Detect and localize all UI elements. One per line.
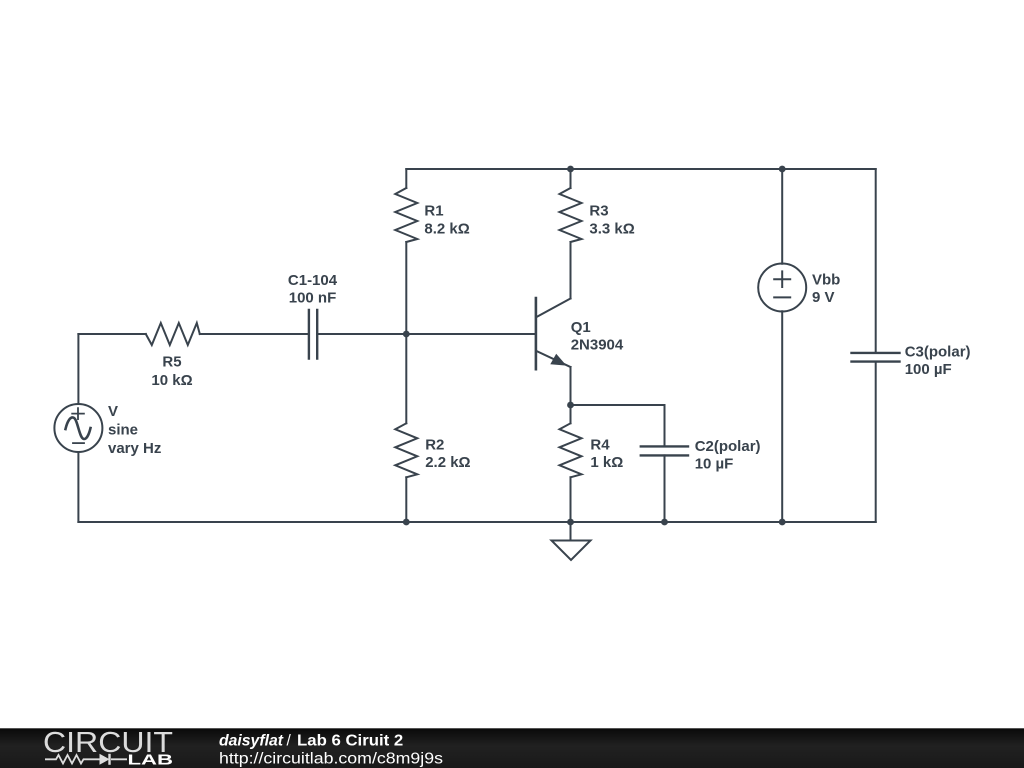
wire emitter node to C2 — [571, 405, 665, 446]
wire C1 to base node — [317, 333, 536, 335]
node R2 bottom junction — [403, 519, 410, 526]
wire R2 bottom stub — [405, 477, 407, 522]
node emitter junction — [567, 402, 574, 409]
svg-text:100 µF: 100 µF — [905, 361, 952, 378]
svg-text:Lab 6 Ciruit 2: Lab 6 Ciruit 2 — [297, 732, 403, 749]
resistor R4 zigzag — [560, 423, 582, 477]
bottom rail wire — [78, 521, 875, 523]
wire right column bottom — [875, 362, 877, 522]
svg-text:Vbb: Vbb — [812, 272, 840, 289]
transistor Q1 base bar — [535, 298, 538, 369]
svg-text:Q1: Q1 — [571, 319, 591, 336]
wire R3 top stub — [570, 169, 572, 188]
wire V to R5 — [78, 333, 145, 335]
footer bar — [0, 728, 1024, 768]
V source plus sign — [72, 408, 84, 419]
svg-text:1 kΩ: 1 kΩ — [590, 454, 623, 471]
svg-text:2.2 kΩ: 2.2 kΩ — [425, 454, 470, 471]
node Vbb top junction — [779, 166, 786, 173]
svg-text:10 kΩ: 10 kΩ — [151, 372, 192, 389]
logo resistor-diode glyph — [45, 755, 127, 764]
resistor R3 zigzag — [560, 188, 582, 242]
svg-text:http://circuitlab.com/c8m9j9s: http://circuitlab.com/c8m9j9s — [219, 750, 443, 767]
svg-text:vary Hz: vary Hz — [108, 440, 161, 457]
top rail wire — [406, 168, 875, 170]
svg-text:C3(polar): C3(polar) — [905, 344, 971, 361]
ground triangle — [552, 541, 591, 561]
capacitor C2 plates — [641, 446, 688, 455]
svg-text:R4: R4 — [590, 437, 610, 454]
V source sine squiggle — [66, 417, 91, 439]
resistor R2 zigzag — [395, 423, 417, 477]
capacitor C3 plates — [852, 353, 900, 362]
svg-text:R5: R5 — [162, 354, 181, 371]
svg-text:V: V — [108, 403, 118, 420]
Vbb plus sign — [774, 271, 790, 287]
svg-text:10 µF: 10 µF — [695, 456, 734, 473]
voltage source Vbb circle — [758, 264, 806, 312]
wire R3 to collector — [570, 242, 572, 299]
node R3 top junction — [567, 166, 574, 173]
V source minus sign — [73, 442, 84, 444]
ground stub — [570, 522, 572, 541]
wire left column top (source to R5 level) — [77, 334, 79, 404]
wire C2 bottom stub — [664, 455, 666, 522]
svg-text:R3: R3 — [589, 202, 608, 219]
svg-text:R2: R2 — [425, 437, 444, 454]
Vbb minus sign — [774, 296, 790, 298]
svg-text:100 nF: 100 nF — [289, 289, 337, 306]
svg-text:daisyflat: daisyflat — [219, 732, 284, 749]
capacitor C1 plates — [309, 310, 317, 359]
svg-text:C1-104: C1-104 — [288, 272, 338, 289]
voltage source V circle — [54, 404, 102, 452]
svg-text:R1: R1 — [424, 202, 443, 219]
wire R4 top stub — [570, 405, 572, 423]
resistor R1 zigzag — [395, 188, 417, 242]
node base junction — [403, 331, 410, 338]
svg-text:8.2 kΩ: 8.2 kΩ — [424, 220, 469, 237]
node C2 bottom junction — [661, 519, 668, 526]
svg-text:C2(polar): C2(polar) — [695, 438, 761, 455]
svg-text:LAB: LAB — [128, 752, 174, 768]
svg-text:sine: sine — [108, 422, 138, 439]
node ground junction — [567, 519, 574, 526]
svg-text:9 V: 9 V — [812, 289, 835, 306]
transistor Q1 emitter arrowhead — [550, 354, 566, 366]
wire right column top — [875, 169, 877, 353]
svg-text:3.3 kΩ: 3.3 kΩ — [589, 220, 634, 237]
wire R4 bottom stub — [570, 477, 572, 522]
resistor R5 zigzag — [146, 323, 200, 345]
svg-text:2N3904: 2N3904 — [571, 337, 624, 354]
svg-text:/: / — [287, 732, 292, 749]
wire left column bottom — [77, 452, 79, 522]
wire Vbb top stub — [781, 169, 783, 264]
wire emitter vertical — [570, 367, 572, 405]
transistor Q1 collector diagonal — [537, 299, 571, 318]
wire R1 top stub — [405, 169, 407, 188]
node Vbb bottom junction — [779, 519, 786, 526]
transistor Q1 emitter diagonal — [537, 351, 571, 367]
wire R1 bottom to base node — [405, 242, 407, 334]
wire Vbb bottom stub — [781, 311, 783, 522]
wire R5 to C1 — [200, 333, 309, 335]
wire R2 top stub — [405, 334, 407, 423]
